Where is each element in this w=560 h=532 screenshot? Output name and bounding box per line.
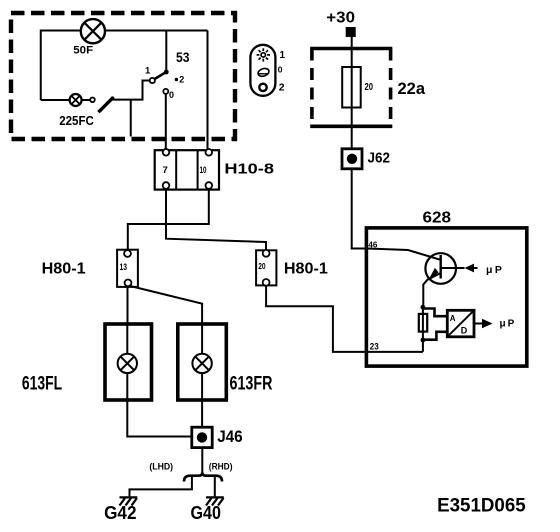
svg-text:628: 628	[423, 210, 452, 227]
svg-text:13: 13	[120, 262, 128, 272]
switch blade 225FC	[98, 98, 112, 112]
wire: J62 down then right into unit 628 pin 46	[352, 169, 440, 260]
svg-text:53: 53	[176, 50, 190, 65]
wire: H80-1 pin20 down and right into unit 628 pin 23	[266, 286, 366, 352]
svg-text:613FR: 613FR	[230, 373, 273, 394]
switch 53 contact 0	[163, 89, 168, 94]
svg-text:E351D065: E351D065	[437, 495, 526, 516]
wire: A/D output	[474, 323, 482, 325]
wire: contact 0 down to H10-8 pin 7	[165, 94, 167, 149]
lamp 613FR	[178, 324, 227, 400]
svg-text:22a: 22a	[398, 79, 426, 98]
ground G42	[120, 497, 138, 505]
battery terminal +30	[346, 27, 356, 37]
node: junction bottom of resistor	[421, 338, 426, 343]
switch 53 blade	[155, 72, 166, 79]
svg-text:613FL: 613FL	[22, 373, 62, 394]
svg-text:23: 23	[370, 342, 379, 352]
svg-text:G40: G40	[191, 502, 221, 523]
svg-text:H80-1: H80-1	[42, 261, 86, 278]
wire: H80-1 pin13 down to lamp 613FL	[127, 286, 129, 324]
wire: blade top to pivot riser	[113, 81, 150, 100]
wire: +30 down through fuse to J62	[351, 32, 353, 149]
svg-text:J62: J62	[368, 150, 391, 167]
wire: H10-8 pin 7 to H80-1 pin 20	[166, 189, 266, 250]
svg-text:20: 20	[365, 82, 374, 93]
connector H10-8	[155, 149, 219, 190]
svg-text:0: 0	[169, 90, 174, 100]
svg-text:(LHD): (LHD)	[149, 462, 173, 472]
ground G40	[206, 497, 224, 505]
dashed unit box (headlamp switch unit)	[11, 13, 235, 139]
svg-text:0: 0	[278, 65, 283, 75]
svg-text:D: D	[461, 326, 468, 336]
svg-text:10: 10	[200, 165, 207, 175]
wire: junctions to A/D converter	[424, 309, 447, 340]
svg-text:20: 20	[258, 262, 266, 271]
wire: lamp to contact	[82, 99, 90, 101]
resistor	[419, 307, 427, 340]
lamp 225FC	[70, 94, 82, 106]
A/D converter U	[447, 310, 474, 337]
svg-text:H10-8: H10-8	[224, 161, 274, 178]
lamp 50F	[81, 19, 105, 43]
connector H80-1 pin 20	[256, 250, 276, 286]
svg-text:μP: μP	[486, 264, 504, 276]
connector H80-1 pin 13	[117, 250, 138, 287]
svg-text:50F: 50F	[73, 45, 93, 57]
contact circle 225FC	[90, 98, 95, 103]
icon off (O)	[259, 84, 266, 91]
svg-text:2: 2	[179, 75, 184, 85]
wire: bottom rail to lamp 225FC	[41, 99, 70, 101]
wire: top rail right side down to H10-8 pin 10	[207, 31, 209, 150]
connector J62	[342, 149, 362, 169]
svg-text:J46: J46	[217, 427, 243, 446]
wire: H80-1 pin13 diagonal to lamp 613FR	[129, 286, 202, 324]
svg-text:μP: μP	[500, 318, 517, 329]
svg-text:225FC: 225FC	[59, 113, 94, 128]
split symbol (brace)	[184, 473, 222, 482]
wire: J46 down to split	[201, 448, 203, 473]
svg-text:(RHD): (RHD)	[209, 462, 233, 472]
icon headlight (sun)	[257, 48, 270, 61]
wire: H10-8 pin 10 to H80-1 pin 13	[128, 189, 209, 250]
icon parking light	[257, 67, 270, 77]
wire: pin 23 rail to resistor bottom	[366, 340, 423, 352]
switch 53 contact 1 (dot)	[164, 70, 169, 75]
wire: inner circuit top rail	[41, 31, 208, 101]
svg-text:46: 46	[368, 240, 377, 250]
switch 53 pivot	[150, 78, 155, 83]
light switch position indicator	[250, 45, 285, 96]
wire: left branch to G42	[130, 477, 192, 497]
svg-text:+30: +30	[326, 10, 355, 27]
transistor Q (driver)	[423, 253, 477, 307]
lamp 613FL	[105, 324, 152, 400]
wire: contact 1 to top rail	[165, 31, 167, 73]
svg-text:2: 2	[279, 82, 285, 94]
ECU box 628	[366, 228, 526, 366]
fuse 20	[342, 67, 361, 108]
switch 53 contact 2 (dot)	[175, 78, 178, 81]
fuse holder box 22a	[310, 49, 392, 127]
wire: lamp 613FL to J46	[127, 400, 191, 437]
svg-text:H80-1: H80-1	[284, 261, 328, 278]
svg-text:G42: G42	[104, 502, 136, 523]
wire: junction drop to unit border	[130, 100, 132, 137]
connector J46	[192, 427, 212, 447]
svg-text:A: A	[450, 314, 456, 323]
wire: right branch to G40	[214, 477, 216, 497]
svg-text:1: 1	[145, 66, 151, 77]
svg-text:1: 1	[280, 50, 286, 61]
node: junction top of resistor	[421, 305, 426, 310]
svg-text:7: 7	[163, 165, 168, 176]
wire: lamp 613FR down to J46	[201, 400, 203, 427]
